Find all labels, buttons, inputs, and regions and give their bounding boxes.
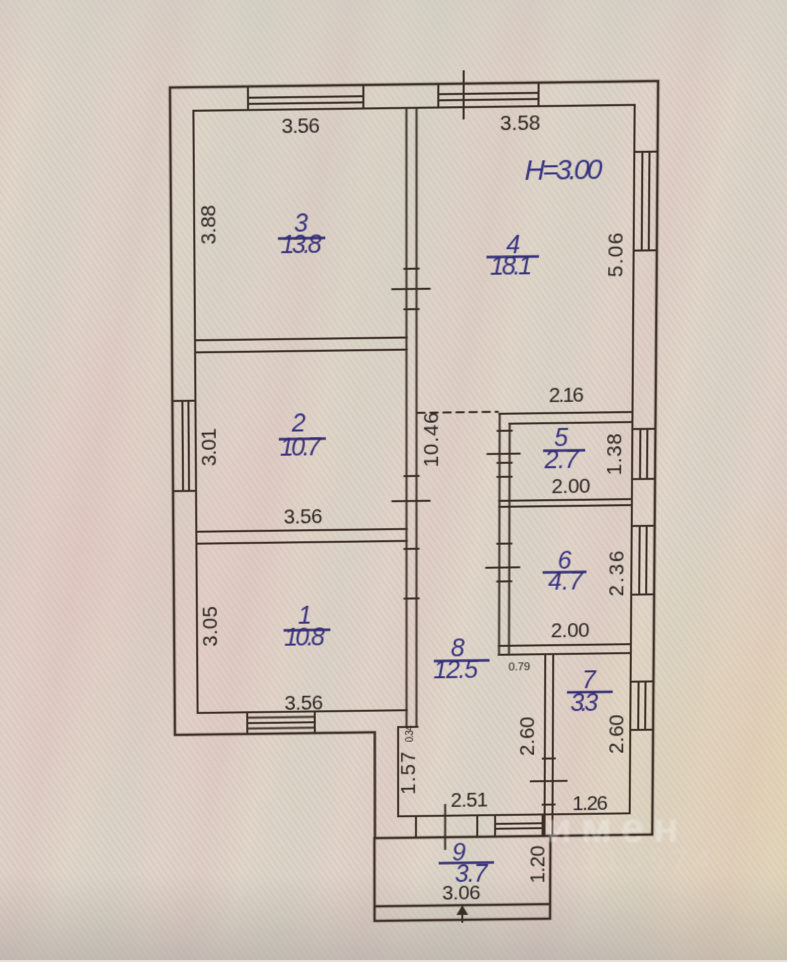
svg-text:10.8: 10.8 (284, 624, 325, 652)
svg-text:H=3.00: H=3.00 (525, 153, 603, 186)
svg-text:3.01: 3.01 (198, 428, 221, 466)
svg-text:2.51: 2.51 (451, 789, 489, 812)
svg-text:1.57: 1.57 (397, 751, 420, 794)
svg-text:3.7: 3.7 (455, 860, 489, 888)
svg-text:2.00: 2.00 (551, 619, 590, 642)
svg-text:3.88: 3.88 (197, 205, 220, 245)
svg-text:2.00: 2.00 (551, 475, 590, 498)
svg-text:2.16: 2.16 (549, 384, 584, 407)
svg-text:0.34: 0.34 (405, 725, 416, 742)
svg-text:0.79: 0.79 (508, 661, 530, 673)
svg-text:5.06: 5.06 (605, 232, 628, 277)
svg-text:2.36: 2.36 (605, 550, 628, 596)
svg-text:3.58: 3.58 (500, 111, 541, 135)
svg-text:2.60: 2.60 (605, 714, 628, 754)
svg-text:3.56: 3.56 (284, 692, 323, 715)
svg-text:3.56: 3.56 (284, 505, 323, 528)
svg-text:1.38: 1.38 (604, 433, 627, 475)
svg-text:13.8: 13.8 (280, 231, 321, 260)
svg-text:2.60: 2.60 (517, 716, 540, 756)
svg-text:3.56: 3.56 (281, 114, 320, 138)
svg-text:10.46: 10.46 (421, 412, 444, 467)
svg-text:3.05: 3.05 (199, 606, 222, 647)
